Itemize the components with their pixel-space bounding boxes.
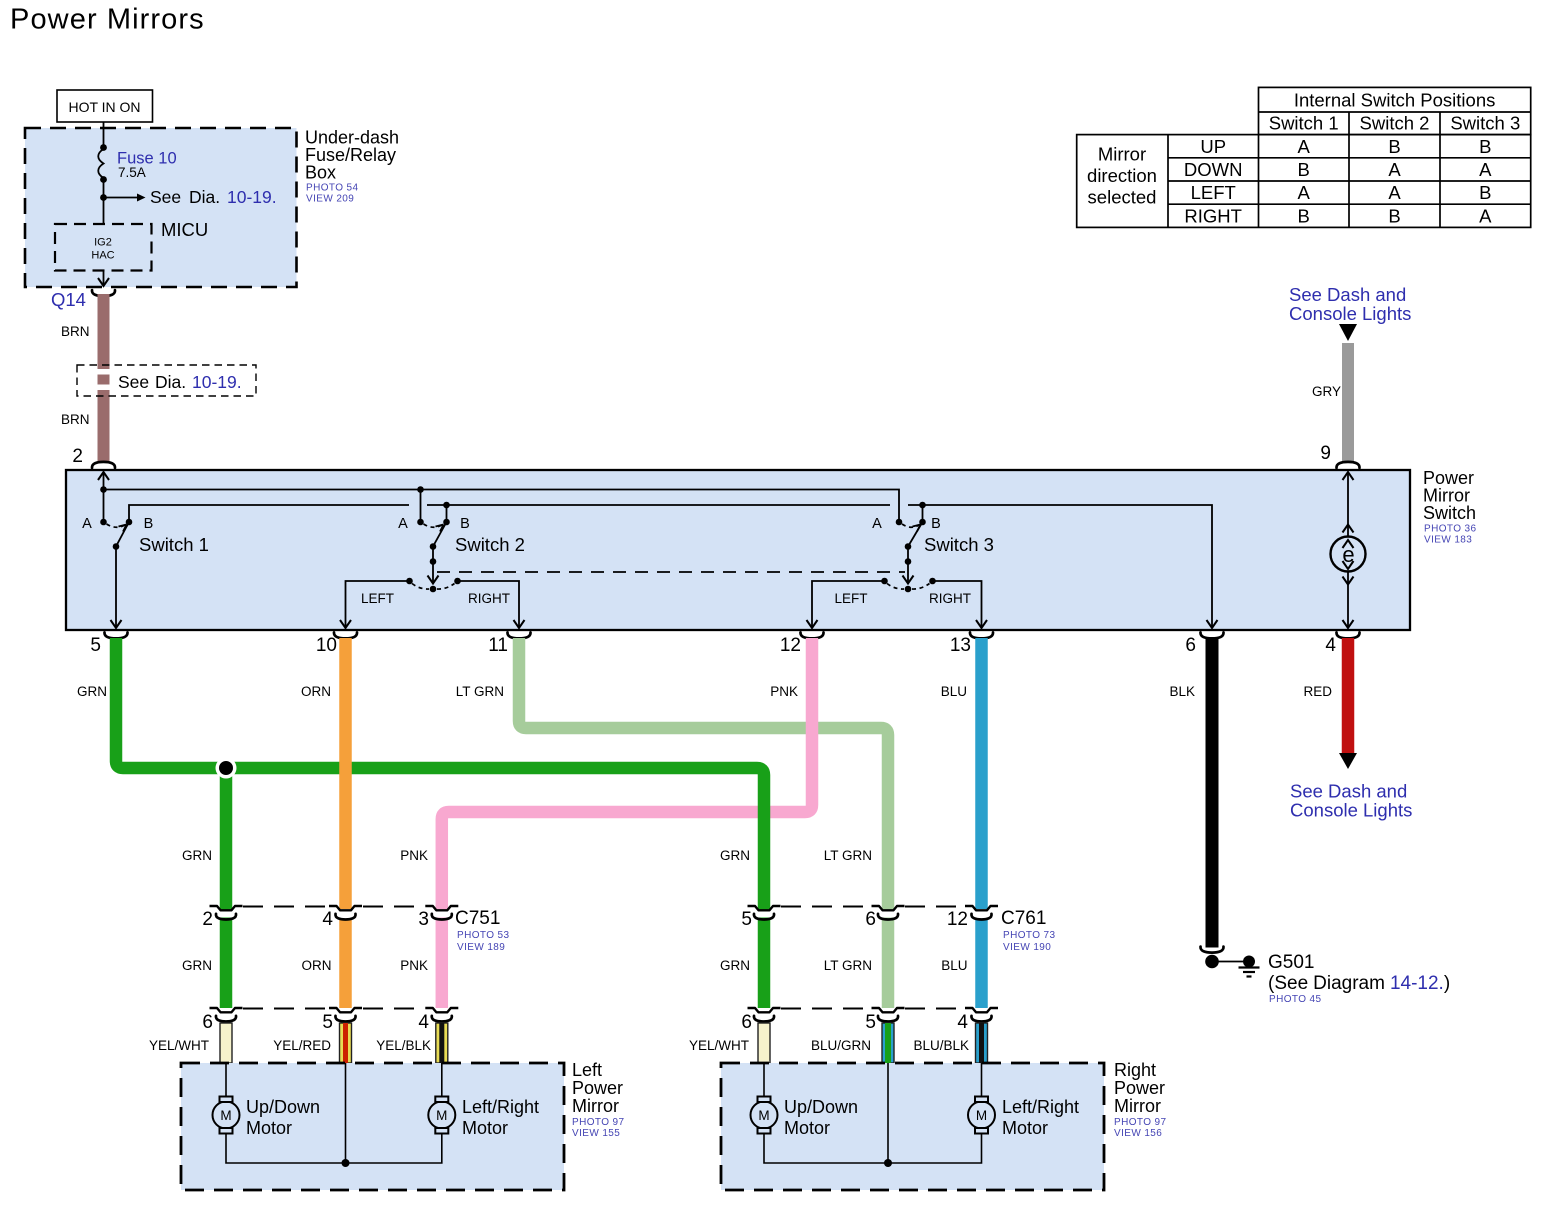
svg-text:B: B [1388,136,1400,157]
svg-text:B: B [1298,159,1310,180]
svg-text:A: A [1298,182,1311,203]
svg-text:VIEW 156: VIEW 156 [1114,1128,1162,1139]
svg-text:YEL/RED: YEL/RED [273,1038,331,1053]
svg-text:LEFT: LEFT [361,591,394,606]
svg-text:RIGHT: RIGHT [1184,205,1242,226]
svg-text:Mirror: Mirror [572,1096,619,1116]
svg-text:A: A [1298,136,1311,157]
svg-text:BRN: BRN [61,412,90,427]
svg-text:Motor: Motor [1002,1118,1048,1138]
svg-text:Left/Right: Left/Right [462,1097,539,1117]
svg-text:3: 3 [418,909,429,930]
svg-text:A: A [1388,182,1401,203]
svg-text:RIGHT: RIGHT [468,591,510,606]
svg-text:B: B [1479,182,1491,203]
svg-text:DOWN: DOWN [1184,159,1243,180]
svg-text:GRN: GRN [77,684,107,699]
svg-text:See Dash and: See Dash and [1289,284,1406,305]
svg-text:A: A [82,516,92,532]
svg-text:PHOTO 45: PHOTO 45 [1269,994,1322,1005]
svg-text:LEFT: LEFT [1191,182,1236,203]
svg-text:Left/Right: Left/Right [1002,1097,1079,1117]
svg-text:4: 4 [1325,635,1336,656]
svg-text:BLU: BLU [941,684,967,699]
svg-text:M: M [758,1108,769,1123]
svg-text:direction: direction [1087,165,1157,186]
svg-text:Internal Switch Positions: Internal Switch Positions [1294,90,1496,111]
svg-text:6: 6 [1185,635,1196,656]
svg-text:6: 6 [741,1012,752,1033]
svg-text:HAC: HAC [91,250,114,262]
svg-text:Mirror: Mirror [1098,144,1146,165]
svg-text:(SeeDiagram14-12.): (SeeDiagram14-12.) [1268,973,1450,994]
svg-text:Motor: Motor [784,1118,830,1138]
svg-text:M: M [436,1108,447,1123]
svg-text:Console Lights: Console Lights [1290,800,1412,821]
svg-text:e: e [1342,542,1354,567]
svg-text:12: 12 [780,635,801,656]
svg-text:Console Lights: Console Lights [1289,303,1411,324]
svg-text:B: B [144,516,154,532]
svg-text:4: 4 [322,909,333,930]
svg-text:Power Mirrors: Power Mirrors [10,4,205,36]
svg-text:6: 6 [202,1012,213,1033]
svg-text:RIGHT: RIGHT [929,591,971,606]
svg-text:PHOTO 73: PHOTO 73 [1003,930,1056,941]
svg-text:PHOTO 97: PHOTO 97 [1114,1117,1167,1128]
svg-text:PNK: PNK [400,958,428,973]
svg-text:LT GRN: LT GRN [456,684,504,699]
svg-text:IG2: IG2 [94,237,112,249]
svg-text:RED: RED [1303,684,1332,699]
svg-text:VIEW 155: VIEW 155 [572,1128,620,1139]
svg-text:Right: Right [1114,1060,1156,1080]
svg-text:13: 13 [950,635,971,656]
svg-text:B: B [931,516,941,532]
svg-text:11: 11 [488,635,508,656]
svg-text:Up/Down: Up/Down [246,1097,320,1117]
svg-text:2: 2 [72,446,83,467]
svg-text:4: 4 [418,1012,429,1033]
svg-text:Power: Power [1114,1078,1165,1098]
svg-text:UP: UP [1200,136,1226,157]
svg-text:Box: Box [305,163,336,183]
svg-text:YEL/WHT: YEL/WHT [689,1038,749,1053]
svg-text:Up/Down: Up/Down [784,1097,858,1117]
svg-text:VIEW 183: VIEW 183 [1424,535,1472,546]
svg-text:PNK: PNK [400,848,428,863]
svg-text:Switch 2: Switch 2 [455,534,525,555]
svg-text:Switch 3: Switch 3 [924,534,994,555]
svg-text:BRN: BRN [61,324,90,339]
svg-text:SeeDia.10-19.: SeeDia.10-19. [118,372,242,392]
svg-text:Left: Left [572,1060,602,1080]
svg-text:selected: selected [1088,187,1157,208]
svg-text:Switch: Switch [1423,503,1476,523]
svg-text:VIEW 189: VIEW 189 [457,942,505,953]
svg-text:M: M [976,1108,987,1123]
svg-text:MICU: MICU [161,219,208,240]
svg-text:PHOTO 97: PHOTO 97 [572,1117,625,1128]
svg-text:Power: Power [572,1078,623,1098]
svg-text:Switch 3: Switch 3 [1450,113,1520,134]
svg-text:YEL/WHT: YEL/WHT [149,1038,209,1053]
svg-text:BLU: BLU [941,958,967,973]
svg-text:ORN: ORN [302,958,332,973]
svg-text:Switch 2: Switch 2 [1360,113,1430,134]
svg-text:Motor: Motor [246,1118,292,1138]
svg-text:HOT IN ON: HOT IN ON [68,99,140,115]
svg-text:See Dash and: See Dash and [1290,781,1407,802]
svg-text:ORN: ORN [301,684,331,699]
svg-text:7.5A: 7.5A [118,165,146,180]
svg-text:B: B [1388,205,1400,226]
svg-text:VIEW 190: VIEW 190 [1003,942,1051,953]
svg-text:A: A [398,516,408,532]
svg-text:5: 5 [322,1012,333,1033]
svg-text:LT GRN: LT GRN [824,848,872,863]
svg-text:C751: C751 [455,908,500,929]
svg-text:B: B [1298,205,1310,226]
svg-text:6: 6 [865,909,876,930]
svg-text:GRY: GRY [1312,384,1341,399]
svg-text:LT GRN: LT GRN [824,958,872,973]
svg-text:G501: G501 [1268,952,1314,973]
svg-text:M: M [220,1108,231,1123]
svg-text:A: A [872,516,882,532]
svg-text:4: 4 [957,1012,968,1033]
svg-text:YEL/BLK: YEL/BLK [376,1038,431,1053]
svg-text:A: A [1479,205,1492,226]
svg-text:Q14: Q14 [51,289,86,310]
svg-text:LEFT: LEFT [834,591,867,606]
svg-text:VIEW 209: VIEW 209 [306,194,354,205]
svg-text:BLK: BLK [1169,684,1195,699]
svg-text:A: A [1479,159,1492,180]
svg-text:5: 5 [90,635,101,656]
svg-text:Switch 1: Switch 1 [139,534,209,555]
svg-text:10: 10 [316,635,337,656]
svg-text:Mirror: Mirror [1114,1096,1161,1116]
svg-text:PHOTO 54: PHOTO 54 [306,183,359,194]
svg-text:5: 5 [865,1012,876,1033]
svg-text:C761: C761 [1001,908,1046,929]
svg-text:GRN: GRN [182,958,212,973]
svg-text:B: B [460,516,470,532]
svg-text:Motor: Motor [462,1118,508,1138]
svg-text:12: 12 [947,909,968,930]
svg-text:GRN: GRN [720,848,750,863]
svg-text:BLU/GRN: BLU/GRN [811,1038,871,1053]
svg-text:BLU/BLK: BLU/BLK [913,1038,969,1053]
svg-text:PNK: PNK [770,684,798,699]
svg-text:9: 9 [1320,443,1331,464]
svg-text:SeeDia.10-19.: SeeDia.10-19. [150,187,277,207]
svg-text:GRN: GRN [720,958,750,973]
svg-text:PHOTO 36: PHOTO 36 [1424,524,1477,535]
svg-text:A: A [1388,159,1401,180]
svg-text:2: 2 [202,909,213,930]
svg-text:Switch 1: Switch 1 [1269,113,1339,134]
svg-text:B: B [1479,136,1491,157]
svg-text:5: 5 [741,909,752,930]
svg-text:PHOTO 53: PHOTO 53 [457,930,510,941]
svg-text:GRN: GRN [182,848,212,863]
